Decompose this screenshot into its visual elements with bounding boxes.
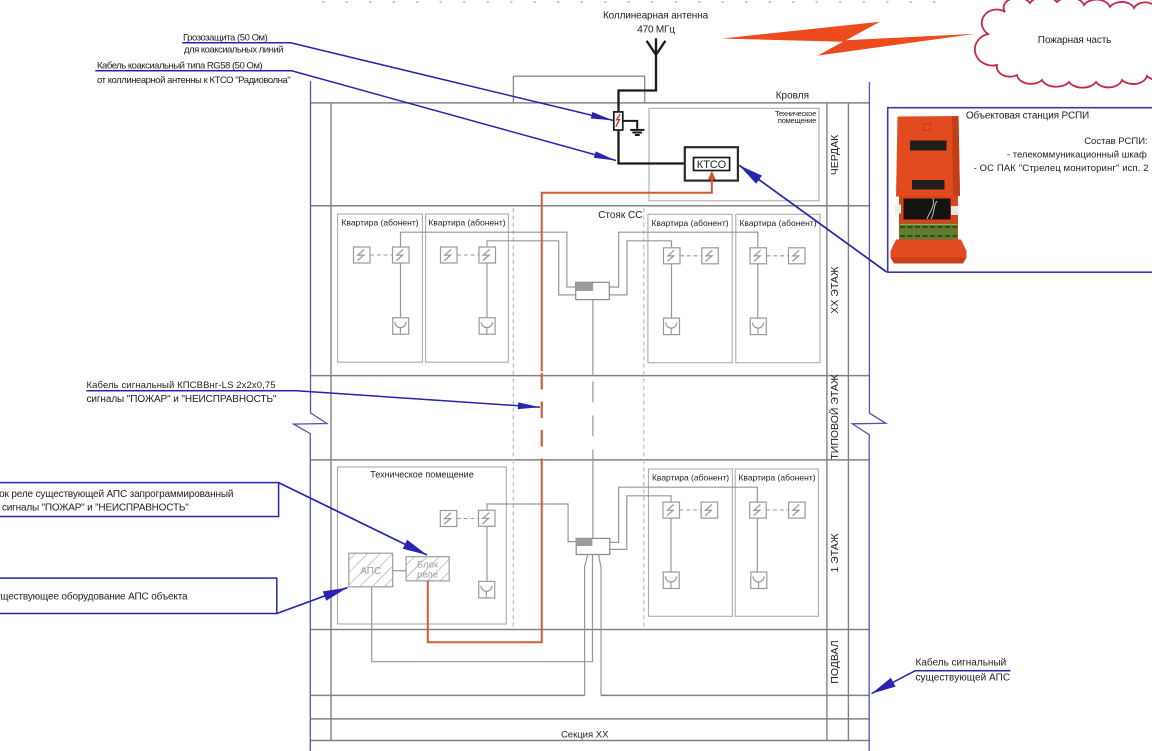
orange signal cable dashed across ТИПОВОЙ ЭТАЖ [541,373,543,461]
1F tech room devices [440,511,457,527]
svg-text:XX ЭТАЖ: XX ЭТАЖ [829,266,841,314]
right inner wall (floor label column left) [826,103,828,741]
АПС box (existing fire alarm panel, hatched) [349,553,393,587]
left outer wall (blue) with break symbol [294,81,327,751]
svg-text:Квартира (абонент): Квартира (абонент) [739,218,816,228]
cabinet wires [927,198,937,219]
svg-text:Квартира (абонент): Квартира (абонент) [652,473,729,483]
svg-text:Техническое помещение: Техническое помещение [370,470,473,480]
box2 wire to sounder [486,263,488,317]
box4 sounder [750,318,766,335]
box5 sounder [663,572,679,589]
apartment box 6 (1st floor) [735,469,818,616]
svg-text:Стояк СС: Стояк СС [598,210,642,221]
cloud Пожарная часть [975,0,1152,88]
svg-text:Квартира (абонент): Квартира (абонент) [738,473,815,483]
svg-text:Блок реле существующей АПС зап: Блок реле существующей АПС запрограммиро… [0,489,233,500]
telecom cabinet photo: door [896,116,960,197]
box2 devices [441,247,458,263]
svg-text:- ОС ПАК "Стрелец мониторинг": - ОС ПАК "Стрелец мониторинг" исп. 2 [974,163,1149,174]
wire bus from box2 to XX riser junction [487,241,576,295]
riser cables down to basement exit [585,555,588,696]
Секция row bottom line [311,740,870,742]
svg-text:Кабель коаксиальный типа RG58: Кабель коаксиальный типа RG58 (50 Ом) [97,61,262,72]
apartment box 2 [426,214,509,362]
svg-text:реле: реле [417,570,438,581]
svg-text:ЧЕРДАК: ЧЕРДАК [829,134,841,175]
lightning arrester (грозозащита) [614,112,623,130]
cabinet interior [899,196,958,244]
box5 devices [663,502,680,518]
right outer wall (blue) with break symbol [852,82,885,751]
ground symbol [623,121,637,129]
coaxial cable from arrester to КТСО [619,130,694,164]
svg-text:АПС: АПС [360,566,381,577]
XX floor riser junction box [576,282,610,299]
apartment box 5 (1st floor) [649,469,733,616]
cabinet base [891,240,967,258]
Блок реле box (relay block, hatched) [406,557,449,581]
1st floor technical room box [338,467,507,624]
cabinet green PCB strip [900,224,958,241]
box1 sounder [393,318,409,335]
leader line to coaxial cable [95,71,616,161]
1F tech room wire to sounder [486,527,488,581]
svg-text:Квартира (абонент): Квартира (абонент) [428,218,505,228]
left inner wall [330,103,332,741]
wire bus XX junction to box3 [609,241,671,295]
riser shaft dashed boundary right [643,208,645,629]
wire bus 1F junction to box5 [610,496,671,550]
cropped text fragments at very top edge [322,1,948,3]
cabinet door slot 2 [912,180,945,190]
svg-text:Состав РСПИ:: Состав РСПИ: [1084,136,1148,147]
box4 wire to sounder [757,264,759,318]
svg-text:Объектовая станция РСПИ: Объектовая станция РСПИ [966,110,1089,122]
box6 devices [750,502,767,518]
leader line to Блок реле [279,483,427,555]
attic technical room box [649,108,819,201]
svg-text:Секция XX: Секция XX [561,729,609,740]
floor slab line 1 ЭТАЖ/ПОДВАЛ [311,629,870,631]
floor slab line ТИПОВОЙ ЭТАЖ/1 ЭТАЖ [311,459,870,461]
svg-text:Грозозащита (50 Ом): Грозозащита (50 Ом) [183,33,268,44]
leader line to АПС box [277,588,348,614]
box1 devices [354,247,371,263]
leader from РСПИ box to КТСО [739,165,886,272]
svg-text:470 МГц: 470 МГц [637,24,675,35]
РСПИ station box (blue frame) [888,108,1152,273]
box6 sounder [751,572,767,589]
box5 wire to sounder [670,518,672,571]
floor slab line ЧЕРДАК/XX ЭТАЖ [311,205,870,207]
wire bus from box1 to XX riser junction [401,232,576,287]
box3 devices [664,248,681,264]
cabinet interior black unit [904,199,951,220]
cabinet door small latch [924,124,931,131]
svg-text:Коллинеарная антенна: Коллинеарная антенна [603,10,709,21]
box6 wire to sounder [756,518,758,571]
leader line to basement wall corner [872,671,1011,694]
svg-text:Кабель сигнальный: Кабель сигнальный [916,657,1007,669]
svg-text:для коаксиальных линий: для коаксиальных линий [184,45,283,56]
box1 wire to sounder [400,263,402,317]
svg-text:от коллинеарной антенны к КТСО: от коллинеарной антенны к КТСО "Радиовол… [97,75,290,86]
orange signal cable КТСО down the riser (solid upper part) [542,179,712,371]
svg-text:Кабель сигнальный КПСВВнг-LS 2: Кабель сигнальный КПСВВнг-LS 2х2х0,75 [87,380,276,391]
building roof line (Кровля) [311,102,870,104]
svg-text:существующей АПС: существующей АПС [916,673,1011,684]
apartment box 3 (XX floor right of shaft) [648,214,732,362]
svg-text:ТИПОВОЙ ЭТАЖ: ТИПОВОЙ ЭТАЖ [828,374,841,460]
cabinet side tabs [895,205,901,214]
КТСО inner box [694,158,730,171]
КТСО outer box [685,147,738,180]
svg-text:помещение: помещение [778,116,816,125]
box3 sounder [664,318,680,335]
box3 wire to sounder [671,264,673,318]
wire bus XX junction to box4 [609,232,758,287]
wire АПС to Блок реле [393,570,406,572]
svg-text:Существующее оборудование АПС: Существующее оборудование АПС объекта [0,591,188,603]
svg-text:сигналы "ПОЖАР" и "НЕИСПРАВНОС: сигналы "ПОЖАР" и "НЕИСПРАВНОСТЬ" [87,394,277,405]
1st floor riser junction box [576,538,610,554]
floor slab line XX ЭТАЖ/ТИПОВОЙ ЭТАЖ [311,375,870,377]
svg-text:КТСО: КТСО [697,159,727,171]
svg-text:Пожарная часть: Пожарная часть [1038,35,1111,46]
1F tech room sounder [479,581,495,598]
leader line to arrester [182,43,613,121]
riser cable down from XX junction (dashed across ТИПОВОЙ ЭТАЖ) [592,300,594,376]
apartment box 4 (XX floor far right) [736,214,820,362]
radio link lightning bolt [722,22,976,56]
svg-text:1 ЭТАЖ: 1 ЭТАЖ [829,533,841,572]
wire bus 1F junction to box6 [610,487,758,542]
leader line to orange cable [86,391,540,407]
riser shaft dashed boundary left [512,208,514,629]
cabinet door slot 1 [910,141,947,151]
Секция row top line [311,718,870,720]
basement floor line with cable exit gap [311,694,870,696]
svg-text:- телекоммуникационный шкаф: - телекоммуникационный шкаф [1007,150,1147,161]
antenna mast (Коллинеарная антенна) [619,38,657,112]
orange signal cable lower loop to Блок реле [428,461,542,642]
building roof parapet [513,76,644,103]
svg-text:Кровля: Кровля [776,90,809,101]
orange arrowhead at КТСО [708,171,716,180]
basement wire from junction to АПС equipment [372,555,593,662]
svg-text:сигналы "ПОЖАР" и "НЕИСПРАВНОС: сигналы "ПОЖАР" и "НЕИСПРАВНОСТЬ" [2,503,189,514]
right inner wall (floor label column right) [847,103,849,741]
label box Блок реле существующей АПС [0,483,279,517]
apartment box 1 (XX floor far left) [338,214,423,362]
box2 sounder [479,318,495,335]
svg-text:Квартира (абонент): Квартира (абонент) [651,218,728,228]
svg-text:ПОДВАЛ: ПОДВАЛ [829,640,841,683]
svg-text:Квартира (абонент): Квартира (абонент) [341,218,418,228]
box4 devices [750,248,767,264]
wire bus from 1F tech room device to 1F junction [487,504,576,542]
label box Существующее оборудование АПС [0,578,277,613]
